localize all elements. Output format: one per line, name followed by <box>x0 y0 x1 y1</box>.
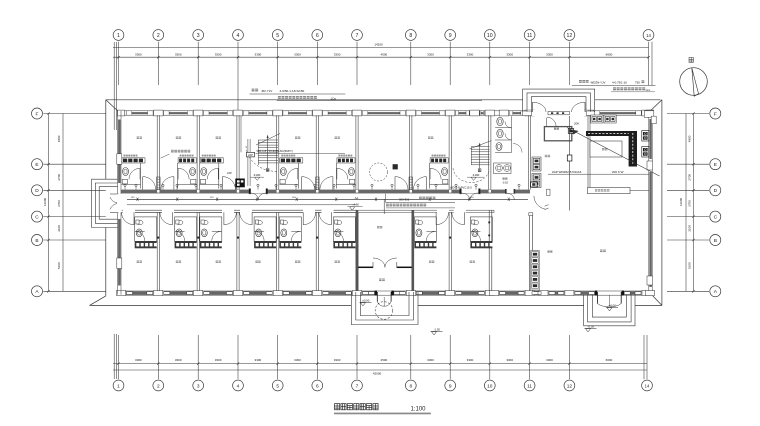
svg-text:2100: 2100 <box>57 225 61 232</box>
cable drop vestibule <box>383 199 385 214</box>
entry door from corridor <box>221 177 223 190</box>
appliance box row <box>200 158 223 163</box>
window <box>594 111 641 115</box>
wall pier <box>118 110 125 116</box>
axis bubble 4 top <box>233 30 244 41</box>
room label <box>216 261 221 263</box>
stair treads <box>258 139 278 141</box>
svg-text:8: 8 <box>409 383 412 389</box>
service box column <box>532 157 541 171</box>
axis bubble 8 bottom <box>405 380 416 391</box>
bathroom door arc <box>135 231 145 241</box>
kitchen equipment column <box>531 251 539 291</box>
partition sockets south <box>157 237 159 239</box>
axis bubble 2 top <box>153 30 164 41</box>
duty label <box>545 155 550 157</box>
axis bubble 14 bottom <box>642 380 653 391</box>
corridor south wall <box>121 209 123 211</box>
svg-text:750: 750 <box>635 80 640 84</box>
sockets on end wall <box>488 222 490 224</box>
room label <box>255 261 260 263</box>
equipment box E2 <box>642 147 649 158</box>
axis bubble 12 top <box>564 30 575 41</box>
svg-text:8: 8 <box>409 33 412 39</box>
corridor pier notch <box>410 190 412 193</box>
appliance box row <box>414 241 436 248</box>
corridor pier notch <box>157 190 159 193</box>
bathroom walls <box>333 217 355 241</box>
bathroom door arc <box>255 231 265 241</box>
washbasin <box>280 179 285 184</box>
svg-text:WD: WD <box>292 197 296 199</box>
wall pier <box>446 290 455 295</box>
svg-text:2700: 2700 <box>57 200 61 207</box>
window <box>362 291 375 295</box>
partition wall south <box>156 212 158 291</box>
entry door from corridor <box>301 177 303 190</box>
corridor power cable run <box>127 198 528 200</box>
svg-text:12600: 12600 <box>679 197 683 206</box>
basin 2 <box>504 165 511 172</box>
bathroom walls <box>140 163 142 189</box>
bathroom walls <box>200 217 222 241</box>
appliance label <box>202 155 216 157</box>
window <box>416 291 445 295</box>
dining west wall <box>528 215 530 291</box>
corridor lighting cable run <box>127 204 356 206</box>
toilet label <box>503 178 508 180</box>
svg-text:6: 6 <box>316 383 319 389</box>
appliance box row <box>175 241 197 248</box>
axis bubble C right <box>710 211 721 222</box>
washbasin <box>191 179 196 184</box>
bar table <box>590 141 622 157</box>
washbasin <box>256 220 263 224</box>
duty room door <box>546 118 548 127</box>
porch flank piers <box>523 111 532 116</box>
toilet lobby door <box>513 144 522 153</box>
bath appliance note <box>171 150 190 153</box>
band under-line <box>121 193 530 195</box>
wall pier <box>565 290 574 295</box>
stair 2 door arcs into corridor <box>462 193 470 200</box>
washbasin <box>122 179 127 184</box>
bathroom door arc <box>471 231 481 241</box>
wall pier <box>525 110 535 116</box>
washbasin <box>335 220 342 224</box>
entry door from corridor <box>425 177 427 190</box>
axis bubble A right <box>710 286 721 297</box>
wall pier <box>499 110 509 116</box>
svg-text:14200: 14200 <box>374 43 383 47</box>
entry door from corridor <box>142 177 144 190</box>
svg-text:±0.00: ±0.00 <box>609 304 616 308</box>
toilet <box>201 168 207 176</box>
left vertical dimension lines <box>48 114 50 292</box>
entry door from corridor <box>251 212 253 225</box>
entry door from corridor <box>173 177 175 190</box>
svg-text:ZAP WDZ62-5.5/3x16: ZAP WDZ62-5.5/3x16 <box>552 170 582 174</box>
partition wall south <box>448 212 450 291</box>
svg-text:4-0.75/1-16: 4-0.75/1-16 <box>612 80 627 84</box>
window <box>509 111 524 115</box>
bathroom walls <box>218 163 220 189</box>
entry door from corridor <box>330 212 332 225</box>
svg-text:F: F <box>714 111 717 117</box>
washbasin <box>281 220 288 224</box>
partition wall south <box>196 212 198 291</box>
room label <box>295 137 300 139</box>
svg-text:4500: 4500 <box>381 358 388 362</box>
bathroom walls <box>135 217 157 241</box>
window <box>323 291 352 295</box>
bathroom walls <box>414 217 436 241</box>
corridor pier notch <box>449 190 451 193</box>
west wall door gap <box>117 194 122 212</box>
room label <box>176 137 181 139</box>
bathroom door arc <box>291 231 301 241</box>
stall door arcs <box>505 122 512 129</box>
stair up label 2 <box>478 169 481 172</box>
bathroom walls <box>254 217 276 241</box>
riser box <box>567 155 572 161</box>
cable tap tick <box>468 198 470 201</box>
elevation mark -1.50 <box>431 332 436 335</box>
axis bubble F left <box>32 108 43 119</box>
east porch door posts <box>595 291 597 296</box>
bathroom door arc <box>430 168 441 179</box>
svg-text:1Cm: 1Cm <box>331 97 337 101</box>
svg-text:4-6/50-1-18-SC50: 4-6/50-1-18-SC50 <box>280 89 305 93</box>
svg-text:4100: 4100 <box>473 173 480 177</box>
leader diagonal across bar <box>567 128 660 177</box>
wall pier <box>154 110 164 116</box>
entry door from corridor <box>302 212 304 225</box>
stair 1 door arcs into corridor <box>251 193 258 200</box>
axis bubble 10 top <box>484 30 495 41</box>
svg-text:3300: 3300 <box>215 358 222 362</box>
entry door from corridor <box>171 212 173 225</box>
washbasin <box>136 220 143 224</box>
room label <box>335 261 340 263</box>
west wall pier 1 <box>117 154 122 165</box>
cable tap tick <box>508 198 510 201</box>
bathroom door arc <box>212 231 222 241</box>
axis bubble B left <box>32 235 43 246</box>
svg-text:B: B <box>714 238 717 244</box>
axis bubble 8 top <box>405 30 416 41</box>
svg-text:4800: 4800 <box>57 135 61 142</box>
feeder annotation top centre <box>252 89 259 92</box>
svg-text:C: C <box>35 215 39 221</box>
window <box>480 111 485 115</box>
svg-text:5100: 5100 <box>57 262 61 269</box>
svg-text:3: 3 <box>197 33 200 39</box>
axis bubble 5 bottom <box>272 380 283 391</box>
svg-text:3: 3 <box>197 383 200 389</box>
svg-text:12: 12 <box>567 383 573 389</box>
window <box>455 111 469 115</box>
svg-text:2: 2 <box>157 383 160 389</box>
north exterior wall with windows <box>118 110 651 112</box>
svg-text:B: B <box>35 238 38 244</box>
stair rail 2 <box>479 144 481 169</box>
svg-text:7: 7 <box>356 33 359 39</box>
window <box>535 291 539 295</box>
partition wall north <box>355 115 357 189</box>
svg-text:WD-1-8 YJV-4x16-SC(50/FT): WD-1-8 YJV-4x16-SC(50/FT) <box>257 149 293 153</box>
washbasin <box>443 179 448 184</box>
svg-text:-0.05: -0.05 <box>588 325 595 329</box>
wall pier <box>313 110 323 116</box>
east wall corner pier <box>644 111 654 118</box>
axis bubble 7 top <box>352 30 363 41</box>
ZAP leader line <box>240 116 242 152</box>
bottom dimension lines <box>113 363 647 365</box>
axis bubble A left <box>32 286 43 297</box>
appliance box row <box>178 158 196 163</box>
svg-text:2: 2 <box>157 33 160 39</box>
wall pier <box>485 110 495 116</box>
wall pier <box>642 290 651 295</box>
bathroom door arc <box>207 168 218 179</box>
partition wall south <box>355 212 357 291</box>
entry door from corridor <box>463 212 465 225</box>
washbasin <box>176 220 183 224</box>
svg-text:3300: 3300 <box>546 358 553 362</box>
window <box>624 291 641 295</box>
partition wall north <box>448 115 450 189</box>
appliance label <box>281 155 295 157</box>
axis bubble 6 top <box>312 30 323 41</box>
wall pier <box>470 110 480 116</box>
axis bubble E right <box>710 159 721 170</box>
toilet <box>280 168 286 176</box>
corridor pier notch <box>277 190 279 193</box>
toilet <box>201 229 207 237</box>
svg-text:AA: AA <box>355 196 359 200</box>
partition wall north <box>236 115 238 189</box>
window <box>549 291 565 295</box>
window <box>455 291 484 295</box>
east wall pier <box>647 161 653 170</box>
wall pier <box>313 290 322 295</box>
appliance box row <box>430 158 448 163</box>
room label <box>470 261 475 263</box>
appliance label <box>124 155 138 157</box>
svg-text:4: 4 <box>237 33 240 39</box>
svg-text:3300: 3300 <box>255 53 262 57</box>
diagonal arrowhead <box>572 130 579 135</box>
bathroom door arc <box>426 231 436 241</box>
wall pier <box>406 110 416 116</box>
washbasin <box>350 179 355 184</box>
svg-text:11: 11 <box>527 33 532 39</box>
svg-text:4500: 4500 <box>381 53 388 57</box>
svg-text:D: D <box>35 188 39 194</box>
window <box>323 111 352 115</box>
wash counter <box>494 163 512 174</box>
window <box>243 291 272 295</box>
stair treads 2 <box>471 146 489 148</box>
elevation mark -0.05 <box>585 329 590 332</box>
partition wall north <box>196 115 198 189</box>
bathroom door arc <box>175 231 185 241</box>
svg-text:3300: 3300 <box>467 53 474 57</box>
wall pier <box>273 290 282 295</box>
wall pier <box>485 290 494 295</box>
entry door from corridor <box>332 177 334 190</box>
corridor end socket box <box>531 182 538 187</box>
GIB socket boxes <box>591 115 603 123</box>
svg-text:5: 5 <box>276 383 279 389</box>
equipment box E1 <box>642 131 649 142</box>
axis bubble 14 top <box>643 30 654 41</box>
room label <box>295 261 300 263</box>
axis bubble B right <box>710 235 721 246</box>
axis bubble D right <box>710 185 721 196</box>
bathroom door arc <box>287 168 298 179</box>
svg-text:WD: WD <box>131 197 135 199</box>
south rooms east end wall <box>488 210 490 291</box>
south east porch nested outline <box>584 295 635 326</box>
partition wall north <box>276 115 278 189</box>
corridor sockets <box>124 184 126 186</box>
appliance box row <box>470 241 492 248</box>
svg-text:3300: 3300 <box>175 358 182 362</box>
south exterior wall with windows <box>118 290 653 292</box>
bathroom walls <box>335 163 337 189</box>
svg-text:3300: 3300 <box>294 53 301 57</box>
axis bubble 11 top <box>524 30 535 41</box>
svg-text:42000: 42000 <box>373 371 382 375</box>
north porch entry doors <box>532 102 534 112</box>
wall pier <box>647 110 654 116</box>
appliance box row <box>254 241 276 248</box>
axis bubble 12 bottom <box>564 380 575 391</box>
svg-text:ZAP: ZAP <box>227 172 232 175</box>
svg-text:10: 10 <box>487 383 493 389</box>
svg-text:1cm: 1cm <box>646 89 651 92</box>
svg-text:ZR-YJV: ZR-YJV <box>262 89 274 93</box>
cable tap tick <box>375 198 377 201</box>
wall pier <box>234 290 243 295</box>
stairwell west wall <box>247 139 249 186</box>
cable tap tick <box>429 198 431 201</box>
dining room <box>600 250 606 253</box>
cable tap tick <box>176 198 178 201</box>
wall pier <box>154 290 163 295</box>
svg-text:200 K W: 200 K W <box>612 170 624 174</box>
stair up label <box>266 169 269 172</box>
svg-text:3300: 3300 <box>294 358 301 362</box>
svg-text:3300: 3300 <box>546 53 553 57</box>
axis bubble F right <box>710 108 721 119</box>
partition wall south <box>315 212 317 291</box>
wall pier <box>117 290 126 295</box>
axis bubble 10 bottom <box>484 380 495 391</box>
wall pier <box>352 110 362 116</box>
cable tap tick <box>296 198 298 201</box>
svg-text:3300: 3300 <box>506 53 513 57</box>
appliance label <box>180 155 194 157</box>
appliance label <box>338 155 352 157</box>
svg-text:WD-2-8-PVC15.5: WD-2-8-PVC15.5 <box>450 186 472 190</box>
appliance box row <box>337 158 355 163</box>
svg-text:7: 7 <box>356 383 359 389</box>
window <box>283 291 312 295</box>
stair 1 double door posts <box>249 189 251 195</box>
toilet east wall <box>528 115 530 189</box>
reception counter desk <box>588 188 631 194</box>
svg-text:5100: 5100 <box>688 262 692 269</box>
basin 1 <box>496 165 503 172</box>
window <box>362 111 405 115</box>
axis bubble 11 bottom <box>524 380 535 391</box>
bar south wall <box>590 190 649 192</box>
svg-text:1: 1 <box>117 383 120 389</box>
svg-text:E: E <box>714 162 717 168</box>
svg-text:D: D <box>714 188 718 194</box>
duty room <box>544 127 571 141</box>
svg-text:2700: 2700 <box>688 200 692 207</box>
cable tap tick <box>216 198 218 201</box>
top dimension lines <box>113 47 649 49</box>
north porch nested outline <box>523 89 595 112</box>
svg-text:3300: 3300 <box>175 53 182 57</box>
toilet <box>190 168 196 176</box>
appliance box row <box>279 241 301 248</box>
entry door lounge <box>394 177 396 190</box>
svg-text:WDZN-YJV: WDZN-YJV <box>591 80 606 84</box>
bathroom door arc <box>129 168 140 179</box>
riser line axis 12 <box>568 116 570 211</box>
toilet <box>472 229 478 237</box>
window <box>203 291 232 295</box>
toilet <box>176 229 182 237</box>
svg-text:E: E <box>35 162 38 168</box>
east exterior wall <box>648 115 650 291</box>
cable tap tick <box>137 198 139 201</box>
hall-dining door arc <box>534 196 546 209</box>
axis bubble 2 bottom <box>153 380 164 391</box>
reception/bar partition <box>587 115 589 190</box>
toilet <box>281 229 287 237</box>
svg-text:3300: 3300 <box>427 53 434 57</box>
wall pier <box>353 290 362 295</box>
appliance box row <box>200 241 222 248</box>
toilet 1 <box>497 117 503 125</box>
washbasin <box>472 220 479 224</box>
bathroom door arc <box>337 168 348 179</box>
small box on east wall <box>651 116 656 124</box>
svg-text:5: 5 <box>276 33 279 39</box>
axis bubble 6 bottom <box>312 380 323 391</box>
svg-text:10: 10 <box>487 33 493 39</box>
wall pier <box>445 110 455 116</box>
bathroom walls <box>177 163 179 189</box>
svg-text:±0.00: ±0.00 <box>362 299 369 303</box>
axis bubble D left <box>32 185 43 196</box>
partition wall north <box>409 115 411 189</box>
stair break line 2 <box>470 141 492 150</box>
right vertical dimension lines <box>685 114 687 292</box>
svg-text:3300: 3300 <box>427 358 434 362</box>
window <box>575 291 595 295</box>
svg-text:3300: 3300 <box>135 358 142 362</box>
washbasin <box>201 179 206 184</box>
duty room label <box>554 128 559 130</box>
